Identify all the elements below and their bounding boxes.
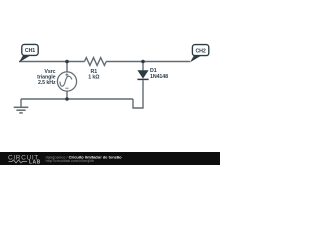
wire top-right (R1 to CH2) bbox=[106, 61, 190, 63]
resistor R1 bbox=[85, 58, 107, 66]
svg-text:LAB: LAB bbox=[29, 159, 41, 165]
junction node at source top bbox=[65, 60, 69, 64]
flag CH1 tail bbox=[19, 55, 31, 62]
flag CH2 tail bbox=[190, 55, 202, 62]
svg-text:2.5 kHz: 2.5 kHz bbox=[38, 80, 56, 86]
source sine wave bbox=[60, 76, 72, 86]
footer logo resistor glyph bbox=[9, 160, 28, 163]
footer bar bbox=[0, 152, 220, 165]
voltage source stub bottom bbox=[66, 91, 68, 99]
diode D1 wire stub top bbox=[142, 62, 144, 71]
voltage source V1 stub top bbox=[66, 62, 68, 73]
junction node at source bottom bbox=[65, 97, 69, 101]
diode D1 triangle bbox=[137, 70, 148, 78]
svg-text:1 kΩ: 1 kΩ bbox=[88, 75, 100, 81]
svg-text:CH1: CH1 bbox=[25, 48, 35, 54]
wire top-left (CH1 to R1) bbox=[19, 61, 85, 63]
wire diode down bbox=[133, 80, 143, 108]
source minus sign bbox=[65, 87, 68, 89]
voltage source Vsrc circle bbox=[57, 72, 76, 91]
flag CH1 bubble bbox=[22, 44, 38, 55]
svg-text:http://circuitlab.com/c/beq5tb: http://circuitlab.com/c/beq5tb bbox=[46, 159, 94, 163]
diode D1 cathode bar bbox=[137, 78, 148, 80]
wire bottom bbox=[21, 98, 133, 100]
source plus sign bbox=[65, 73, 68, 76]
junction node at diode top bbox=[141, 60, 145, 64]
flag CH2 bubble bbox=[192, 45, 208, 56]
svg-text:1N4148: 1N4148 bbox=[150, 74, 168, 80]
svg-text:CH2: CH2 bbox=[195, 48, 205, 54]
ground bbox=[14, 99, 29, 113]
